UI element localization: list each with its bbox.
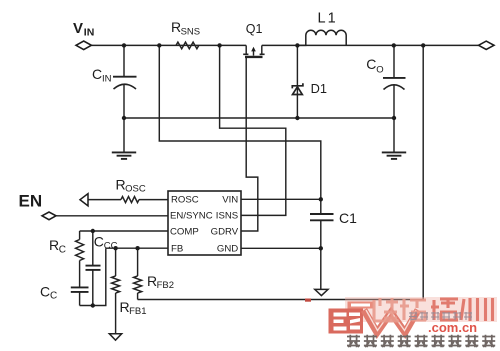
svg-text:R: R [116,176,126,192]
svg-text:EN/SYNC: EN/SYNC [170,211,213,222]
svg-text:C1: C1 [339,210,357,226]
svg-text:D1: D1 [311,81,327,96]
svg-text:R: R [49,237,59,253]
svg-text:L1: L1 [318,11,338,27]
svg-text:.com.cn: .com.cn [428,320,477,335]
svg-text:IN: IN [102,73,112,84]
svg-text:Q1: Q1 [246,22,263,36]
svg-text:ROSC: ROSC [171,195,199,206]
svg-text:VIN: VIN [222,195,238,206]
svg-text:SNS: SNS [181,26,201,37]
svg-text:CC: CC [104,241,118,252]
svg-text:O: O [376,64,383,75]
svg-text:FB2: FB2 [157,280,174,291]
svg-text:OSC: OSC [125,183,146,194]
svg-text:FB1: FB1 [129,306,146,317]
svg-text:R: R [120,299,130,315]
svg-text:FB: FB [171,244,183,255]
svg-text:V: V [73,20,83,37]
svg-text:C: C [366,56,376,72]
svg-text:R: R [147,273,157,289]
svg-text:IN: IN [84,27,95,39]
svg-text:C: C [59,244,66,255]
svg-text:GDRV: GDRV [211,226,239,237]
svg-text:R: R [171,19,181,35]
svg-text:GND: GND [217,244,238,255]
svg-text:C: C [92,66,102,82]
svg-text:COMP: COMP [170,226,199,237]
svg-text:ISNS: ISNS [216,211,238,222]
svg-text:C: C [94,233,104,249]
svg-text:EN: EN [19,191,43,210]
svg-text:C: C [40,283,50,299]
svg-text:C: C [50,291,57,302]
